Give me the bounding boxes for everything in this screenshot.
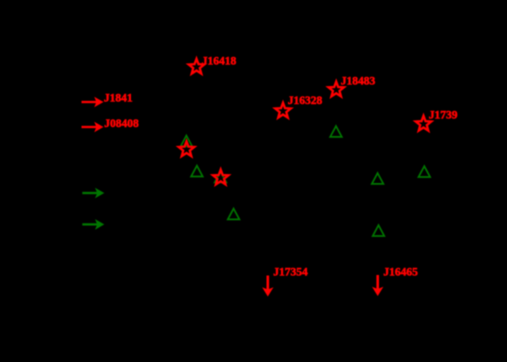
triangle T8 — [373, 225, 385, 236]
triangle behind star S6 — [215, 172, 227, 183]
svg-text:J16418: J16418 — [202, 55, 237, 67]
svg-text:J1841: J1841 — [104, 93, 133, 105]
star J18483 — [328, 82, 344, 97]
triangle T4 — [228, 209, 240, 220]
star J16418 — [189, 59, 205, 74]
svg-text:J17354: J17354 — [273, 266, 308, 278]
svg-text:J18483: J18483 — [341, 76, 376, 88]
triangle T6 — [372, 173, 384, 184]
triangle T2 — [191, 166, 203, 177]
svg-text:J16328: J16328 — [288, 95, 323, 107]
star J1739 — [416, 116, 432, 131]
red down arrow J17354 — [262, 276, 273, 297]
svg-text:J16465: J16465 — [383, 266, 418, 278]
green right arrow upper — [82, 188, 104, 199]
star S5 unlabeled — [179, 141, 195, 156]
triangle T7 — [419, 166, 431, 177]
red right arrow J1841 — [82, 97, 104, 108]
triangle T5 — [330, 126, 342, 137]
star S6 unlabeled — [213, 170, 229, 185]
red right arrow J08408 — [82, 122, 104, 133]
green right arrow lower — [82, 219, 104, 230]
star J16328 — [275, 103, 291, 118]
svg-text:J1739: J1739 — [429, 109, 458, 121]
red down arrow J16465 — [372, 275, 383, 296]
triangle behind star (upper-left cluster) — [181, 136, 193, 147]
svg-text:J08408: J08408 — [104, 118, 139, 130]
